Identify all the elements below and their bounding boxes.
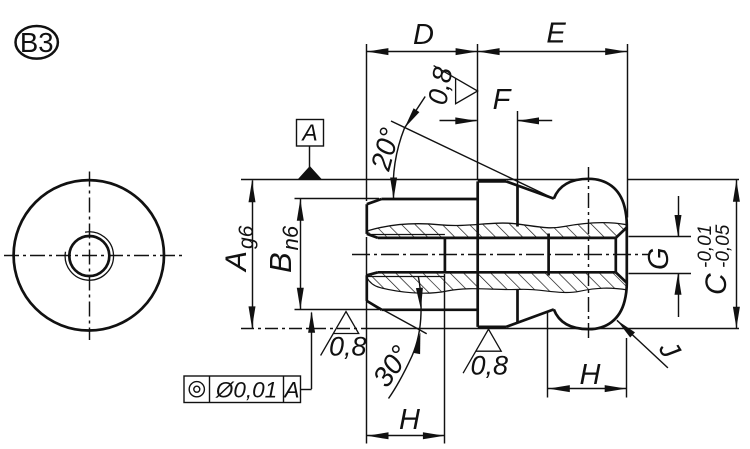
internal thread major top [367,234,445,236]
svg-text:D: D [413,19,434,51]
svg-text:B3: B3 [20,27,54,58]
ball vertical centerline [588,167,590,342]
extension line G top [629,236,692,238]
concentricity tolerance frame [184,376,301,403]
dimension C line [736,180,738,329]
dimension B line [300,199,302,310]
leader J (ball surface) [617,320,668,368]
upper break wavy line [367,223,628,231]
front view thread major arc [65,232,113,280]
front view centerline horizontal [4,255,186,257]
svg-text:F: F [493,84,513,116]
extension line top (ball/collar tangent) [241,179,582,181]
lower break wavy line [367,278,628,294]
internal thread end line [444,238,447,272]
surface finish symbol 0,8 (under thread bottom edge) [321,312,359,356]
svg-text:0,8: 0,8 [422,65,458,107]
concentricity symbol [189,382,204,397]
surface finish symbol 0,8 (under collar) [463,329,501,373]
dimension G line upper [678,196,680,237]
dimension G line lower [678,273,680,317]
svg-text:A: A [282,378,299,403]
extension line H-bottom right [444,274,446,444]
extension line B top [295,198,380,200]
front view outer circle (ball dia A) [14,180,164,330]
dimension A line [252,180,254,328]
cone top 20deg [506,181,554,198]
bore exit chamfer top [616,227,627,238]
body left face upper [365,204,368,234]
ball outline [554,179,627,329]
label C with tolerance [695,224,734,295]
20deg dimension arc [393,128,404,199]
svg-text:E: E [546,18,566,50]
cone bottom [506,309,554,327]
broken-out section lower hatch band [367,272,628,293]
broken-out section upper hatch band [367,223,628,238]
datum A frame [297,120,324,147]
extension line bottom left part (dash-dot) [241,328,370,330]
collar left face [476,181,479,327]
bore bottom edge [378,271,616,274]
dimension D line [366,51,477,53]
front view thread hole circle [69,236,109,276]
extension line G bottom [629,273,692,275]
datum A stem [309,146,311,168]
collar bottom edge [478,326,506,329]
svg-text:0,8: 0,8 [329,332,367,362]
bore step line in ball [547,234,550,276]
20deg reference line (cone extended) [391,121,554,199]
view label B3 [16,26,58,59]
cylinder B top edge [382,198,478,201]
dimension F line left tail [440,120,477,122]
body left face lower [365,275,368,301]
internal thread major bottom [367,276,445,278]
collar top edge [478,180,506,183]
svg-text:0,8: 0,8 [471,351,509,381]
dimension H-bottom line [367,435,445,437]
datum A filled triangle [298,166,322,179]
cylinder B bottom edge [382,308,478,311]
svg-text:-0,05: -0,05 [713,224,734,268]
front view centerline vertical [89,172,91,341]
dimension F line right tail [518,120,553,122]
extension line bottom right part [370,328,739,330]
30deg reference line (chamfer extended) [367,301,427,334]
20deg arc tail beyond ref line [405,97,426,129]
svg-text:C: C [700,273,733,295]
extension line H-right right [626,338,628,398]
dimension E line [478,51,628,53]
bore top edge [378,237,616,240]
extension line H-right left [547,312,549,398]
collar right face lower [516,290,519,323]
extension line D/E shared (collar left face extended) [477,44,479,180]
extension line F right [517,111,519,186]
bore entrance chamfer top [367,234,378,238]
svg-text:Ø0,01: Ø0,01 [215,378,277,403]
extension line B bottom [295,309,380,311]
surface finish symbol 0,8 rotated (collar left face) [434,66,478,104]
svg-text:H: H [399,404,420,436]
svg-text:G: G [643,247,675,270]
extension line top right of ball (to C) [627,179,739,181]
collar right face upper [516,186,519,227]
extension line D left [366,44,368,201]
svg-text:A: A [300,120,317,146]
svg-text:H: H [580,359,601,391]
dimension H-right line [548,388,627,390]
bore end line [614,238,617,272]
bore entrance chamfer bottom [367,272,378,275]
30deg dimension arc [389,277,422,399]
extension line H-bottom left [366,237,368,444]
tolerance frame leader [301,389,312,391]
extension line E right [627,44,629,218]
bottom chamfer 30deg [367,301,382,310]
bore exit chamfer bottom [616,272,627,283]
top chamfer 20deg [367,199,382,204]
section axis centerline [352,254,650,256]
